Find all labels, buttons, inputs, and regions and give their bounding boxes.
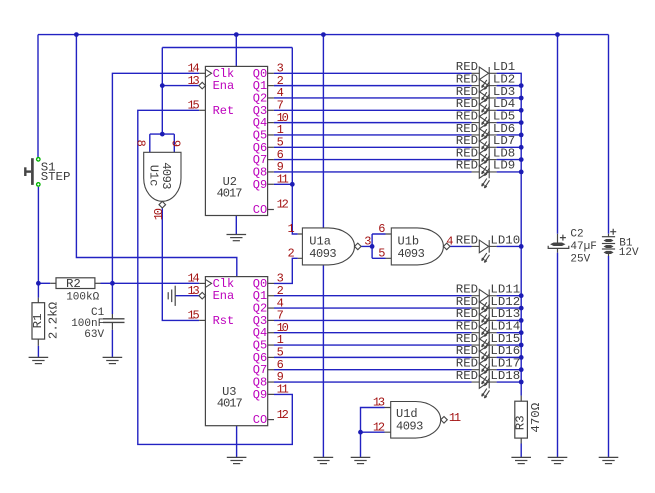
svg-text:Ena: Ena [213, 289, 235, 303]
LED LD15 (red) [472, 339, 497, 361]
wire LD13 cathode to bus [497, 319, 522, 321]
junction U1c pins tie [160, 132, 165, 137]
wire U3 ground stem [236, 426, 238, 458]
svg-text:1: 1 [288, 222, 295, 236]
junction bus LD7 [519, 145, 524, 150]
wire LD7 cathode to bus [497, 146, 522, 148]
wire V+ drop to U3 Vdd [76, 35, 236, 277]
wire U1a output to U1b inputs [361, 234, 385, 258]
svg-text:47µF: 47µF [570, 241, 596, 253]
junction bus LD15 [519, 343, 524, 348]
junction rail/x76 [74, 32, 79, 37]
svg-text:5: 5 [378, 247, 385, 261]
LED LD2 (red) [472, 79, 497, 101]
ground C1 [103, 357, 123, 363]
svg-text:LD18: LD18 [490, 369, 520, 383]
NAND gate U1b (4093) [391, 228, 450, 265]
junction R2 left node [36, 281, 41, 286]
LED LD9 (red) [472, 166, 497, 188]
svg-text:Q9: Q9 [253, 178, 267, 192]
junction rail/x323 [321, 32, 326, 37]
wire net Q9 link vertical right to U1a pin1 [292, 48, 298, 235]
IC U2 4017 counter [188, 62, 289, 218]
junction bus LD10 [519, 244, 524, 249]
ground under U3 [227, 457, 247, 463]
junction bus LD18 [519, 380, 524, 385]
junction Ena net [160, 83, 165, 88]
wire U2 Q8 to LD9 [274, 171, 472, 173]
wire B1 bottom lead [608, 256, 610, 457]
wire U2 Q0 to LD1 [274, 72, 472, 74]
junction bus LD16 [519, 355, 524, 360]
wire net Q9 link vertical left [161, 48, 163, 135]
ground R1 [29, 357, 49, 363]
LED LD10 (red) [472, 240, 497, 262]
wire LD8 cathode to bus [497, 159, 522, 161]
resistor R2 100k [50, 277, 112, 303]
svg-text:STEP: STEP [41, 170, 71, 184]
wire B1 top lead [608, 35, 610, 234]
svg-text:3: 3 [364, 235, 371, 249]
wire LD5 cathode to bus [497, 122, 522, 124]
svg-text:63V: 63V [84, 329, 104, 341]
junction U1a out node [370, 244, 375, 249]
wire net Q9/Ena top link [162, 47, 292, 49]
wire U2 Clk to R2/C1 node [112, 73, 199, 283]
wire LD4 cathode to bus [497, 109, 522, 111]
wire C1 top lead [111, 283, 113, 314]
wire LD14 cathode to bus [497, 332, 522, 334]
wire U2 Q4 to LD5 [274, 122, 472, 124]
wire R2 node to U3 Clk [112, 282, 199, 284]
svg-text:R1: R1 [31, 313, 45, 328]
wire U3 Q5 to LD15 [274, 344, 472, 346]
junction bus LD3 [519, 96, 524, 101]
junction rail/U2 Vdd [234, 32, 239, 37]
wire V+ to S1 top [37, 35, 39, 158]
IC U3 4017 counter [188, 272, 289, 428]
ground under U2 [227, 235, 247, 241]
wire U1c out to U3 Rst [162, 208, 199, 320]
capacitor C2 47uF electrolytic [548, 229, 597, 266]
NAND gate U1d (4093) [391, 402, 448, 439]
wire U3 Q8 to LD18 [274, 381, 472, 383]
LED LD13 (red) [472, 314, 497, 336]
wire LD12 cathode to bus [497, 307, 522, 309]
svg-text:CO: CO [253, 203, 267, 217]
NAND gate U1c (4093), rotated [144, 152, 181, 208]
battery B1 12V [602, 229, 639, 260]
wire LD16 cathode to bus [497, 356, 522, 358]
svg-text:LD9: LD9 [493, 159, 515, 173]
wire U1d input pin stubs [385, 408, 391, 433]
wire C2 bottom lead [557, 253, 559, 458]
resistor R3 470 ohm [515, 396, 528, 444]
junction rail/C2 [555, 32, 560, 37]
wire U2 Ret to U3 Q9 [138, 110, 292, 444]
wire U3 Q3 to LD13 [274, 319, 472, 321]
svg-text:100kΩ: 100kΩ [66, 292, 99, 304]
wire LD10 cathode to bus [497, 245, 522, 247]
junction bus LD8 [519, 157, 524, 162]
wire U3 Q0 to U1a pin2 [274, 258, 298, 283]
wire U3 Ena to ground symbol [175, 295, 199, 297]
LED LD5 (red) [472, 116, 497, 138]
svg-text:RED: RED [456, 233, 478, 247]
LED LD7 (red) [472, 141, 497, 163]
junction bus LD5 [519, 120, 524, 125]
svg-text:6: 6 [378, 222, 385, 236]
svg-text:R3: R3 [514, 415, 528, 430]
wire V+ drop to U2 Vdd [235, 35, 237, 67]
wire LD18 cathode to bus [497, 381, 522, 383]
wire LD11 cathode to bus [497, 295, 522, 297]
LED LD1 (red) [472, 67, 497, 89]
wire R3 bottom to ground [520, 444, 522, 458]
wire LD6 cathode to bus [497, 134, 522, 136]
wire R1 bottom to ground [37, 346, 39, 357]
wire V+ rail [38, 34, 609, 36]
switch S1 STEP (push-button) [25, 157, 70, 187]
svg-text:470Ω: 470Ω [529, 402, 543, 432]
LED LD16 (red) [472, 351, 497, 373]
junction U1d in node [358, 430, 363, 435]
wire LD9 cathode to bus [497, 171, 522, 173]
wire S1 bottom to R1/R2 node [37, 187, 39, 298]
wire U1b input pin stubs [386, 234, 392, 258]
svg-text:Ret: Ret [213, 104, 235, 118]
junction bus LD17 [519, 367, 524, 372]
junction bus LD4 [519, 108, 524, 113]
wire U3 Q4 to LD14 [274, 332, 472, 334]
svg-text:4093: 4093 [398, 247, 425, 261]
wire U1a input pin stubs [298, 234, 303, 258]
junction bus LD13 [519, 318, 524, 323]
wire U2 Q2 to LD3 [274, 97, 472, 99]
wire C2 top lead [557, 35, 559, 234]
wire C1 bottom lead to ground [111, 330, 113, 357]
wire U3 Q1 to LD11 [274, 295, 472, 297]
svg-text:12V: 12V [619, 247, 639, 259]
wire R2 left lead [38, 282, 50, 284]
ground x=323 rail [314, 457, 334, 463]
wire U3 Q7 to LD17 [274, 369, 472, 371]
wire U2 Q5 to LD6 [274, 134, 472, 136]
LED LD17 (red) [472, 363, 497, 385]
LED LD18 (red) [472, 376, 497, 398]
svg-text:9: 9 [168, 140, 182, 147]
junction bus LD2 [519, 83, 524, 88]
wire U1c pin8 pin9 tie [150, 134, 175, 152]
NAND gate U1a (4093) [302, 228, 361, 265]
ground C2 [548, 457, 568, 463]
LED LD14 (red) [472, 326, 497, 348]
wire U1d input tie to ground [361, 408, 385, 458]
svg-text:8: 8 [133, 140, 147, 147]
svg-text:25V: 25V [570, 254, 590, 266]
svg-text:RED: RED [456, 369, 478, 383]
wire LD1 cathode to bus / LED bus [497, 73, 522, 395]
junction R2 right node [110, 281, 115, 286]
svg-text:CO: CO [253, 413, 267, 427]
junction bus LD11 [519, 293, 524, 298]
wire U2 Q9 stub to net [274, 183, 292, 185]
LED LD4 (red) [472, 104, 497, 126]
svg-text:U1c: U1c [147, 165, 161, 187]
svg-text:4093: 4093 [309, 247, 336, 261]
svg-text:4017: 4017 [217, 186, 243, 200]
resistor R1 2.2k [32, 298, 45, 346]
wire U2 Q7 to LD8 [274, 159, 472, 161]
LED LD11 (red) [472, 289, 497, 311]
svg-text:2: 2 [288, 247, 295, 261]
wire LD15 cathode to bus [497, 344, 522, 346]
LED LD12 (red) [472, 302, 497, 324]
ground B1 [599, 457, 619, 463]
svg-text:Rst: Rst [213, 314, 235, 328]
LED LD8 (red) [472, 153, 497, 175]
wire U3 Q2 to LD12 [274, 307, 472, 309]
svg-text:Q9: Q9 [253, 388, 267, 402]
wire LD17 cathode to bus [497, 369, 522, 371]
junction Q9 net [290, 182, 295, 187]
svg-text:4093: 4093 [396, 419, 423, 433]
wire U2 Ena to net [162, 85, 199, 87]
junction bus LD12 [519, 306, 524, 311]
svg-text:4: 4 [446, 235, 453, 249]
junction bus LD14 [519, 330, 524, 335]
LED LD3 (red) [472, 92, 497, 114]
junction bus LD9 [519, 170, 524, 175]
svg-text:4017: 4017 [217, 397, 243, 411]
svg-text:Ena: Ena [213, 79, 235, 93]
wire U2 ground stem [235, 216, 237, 235]
LED LD6 (red) [472, 129, 497, 151]
wire V+ drop to ground (x=323) [322, 35, 324, 458]
svg-text:RED: RED [456, 159, 478, 173]
svg-text:4093: 4093 [159, 162, 173, 189]
svg-text:2.2kΩ: 2.2kΩ [47, 301, 61, 339]
wire U2 Q1 to LD2 [274, 85, 472, 87]
wire U1b output to LD10 [450, 245, 472, 247]
wire U2 Q3 to LD4 [274, 109, 472, 111]
svg-text:R2: R2 [66, 277, 81, 291]
junction bus LD6 [519, 133, 524, 138]
ground R3 [511, 457, 531, 463]
svg-text:LD10: LD10 [490, 233, 520, 247]
wire LD2 cathode to bus [497, 85, 522, 87]
capacitor C1 100nF [71, 307, 124, 341]
ground U1d inputs [351, 457, 371, 463]
ground U3 Ena (rotated) [168, 286, 175, 306]
svg-text:C2: C2 [570, 229, 583, 241]
wire LD3 cathode to bus [497, 97, 522, 99]
wire U3 Q6 to LD16 [274, 356, 472, 358]
wire U2 Q6 to LD7 [274, 146, 472, 148]
